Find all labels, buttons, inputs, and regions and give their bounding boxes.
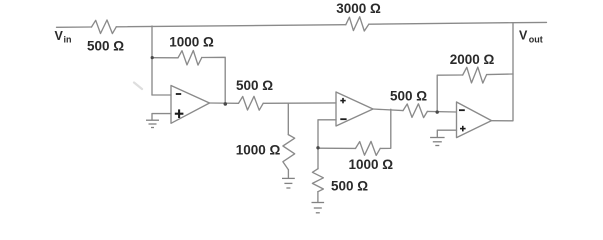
op-amp U1 <box>171 86 210 124</box>
wire U3 output up to top rail <box>492 23 514 121</box>
pin minus U2 <box>340 118 346 120</box>
pin plus U3 <box>460 126 466 132</box>
value label R7 3000ohm <box>336 1 381 16</box>
wire U1 non-inverting input to ground <box>152 114 171 120</box>
value label R3 500ohm <box>236 78 273 93</box>
resistor R6 500ohm to ground <box>312 169 323 192</box>
wire R6 to ground <box>317 192 319 202</box>
value label R6 500ohm <box>331 179 368 194</box>
node Vout label <box>519 29 543 45</box>
junction node A feedback tap <box>151 56 154 59</box>
svg-text:500 Ω: 500 Ω <box>87 39 124 54</box>
op-amp U3 <box>457 102 492 138</box>
resistor R4 1000ohm to ground <box>283 135 295 170</box>
wire U1 inverting input <box>152 94 171 96</box>
resistor R1 500ohm input <box>92 20 117 34</box>
wire U2 output <box>373 109 403 111</box>
svg-text:500 Ω: 500 Ω <box>236 78 273 93</box>
ground R4 <box>282 178 295 188</box>
wire node C to R5 <box>318 147 356 149</box>
value label R9 2000ohm <box>450 52 495 67</box>
junction U1 output node <box>224 102 228 106</box>
value label R1 500ohm <box>87 39 124 54</box>
wire R9 to output net <box>487 73 513 76</box>
resistor R5 1000ohm U2 feedback <box>356 141 381 155</box>
svg-text:3000 Ω: 3000 Ω <box>336 1 381 16</box>
value label R2 1000ohm <box>169 34 214 49</box>
wire node B down to R4 <box>287 104 289 135</box>
pin plus U1 <box>175 109 184 118</box>
value label R8 500ohm <box>390 89 427 104</box>
pin minus U3 <box>459 109 465 111</box>
wire node B to U2 non-inverting input <box>263 102 336 104</box>
svg-text:500 Ω: 500 Ω <box>390 89 427 104</box>
junction node C <box>316 146 319 149</box>
svg-text:out: out <box>529 35 543 45</box>
wire R4 to ground <box>287 170 289 178</box>
svg-text:in: in <box>64 35 72 45</box>
node Vin label <box>55 29 72 45</box>
ground U1 <box>146 120 159 127</box>
svg-text:V: V <box>55 29 64 43</box>
resistor R9 2000ohm U3 feedback <box>463 67 487 83</box>
svg-text:1000 Ω: 1000 Ω <box>348 157 393 172</box>
wire node D up to R9 <box>437 75 463 112</box>
op-amp U2 <box>336 92 373 126</box>
resistor R2 1000ohm U1 feedback <box>178 51 202 66</box>
svg-text:500 Ω: 500 Ω <box>331 179 368 194</box>
svg-text:2000 Ω: 2000 Ω <box>450 52 495 67</box>
wire branch down from top rail at node A <box>151 26 153 95</box>
ground R6 <box>312 203 325 213</box>
wire R8 to U3 inverting input <box>427 110 456 113</box>
value label R5 1000ohm <box>348 157 393 172</box>
svg-text:V: V <box>519 29 528 43</box>
wire U2 inverting input down to node C <box>318 120 336 148</box>
resistor R8 500ohm series <box>403 104 427 118</box>
wire R5 up to U2 output <box>380 109 391 148</box>
ground U3 <box>430 138 445 146</box>
scan smudge <box>134 83 142 90</box>
wire top rail left (Vin to node A) <box>57 25 346 28</box>
resistor R3 500ohm series <box>239 96 264 110</box>
wire top rail right (to Vout) <box>369 22 547 24</box>
pin minus U1 <box>176 93 181 95</box>
junction node D <box>436 110 439 113</box>
wire node C down to R6 <box>317 148 319 169</box>
wire U3 non-inverting input to ground <box>437 130 456 137</box>
svg-text:1000 Ω: 1000 Ω <box>169 34 214 49</box>
wire U1 feedback left segment <box>152 57 178 59</box>
wire U1 output <box>210 102 239 104</box>
value label R4 1000ohm <box>236 143 281 158</box>
resistor R7 3000ohm top feedback <box>346 17 369 31</box>
wire U1 feedback right segment down to output <box>202 57 225 104</box>
svg-text:1000 Ω: 1000 Ω <box>236 143 281 158</box>
pin plus U2 <box>340 98 345 103</box>
